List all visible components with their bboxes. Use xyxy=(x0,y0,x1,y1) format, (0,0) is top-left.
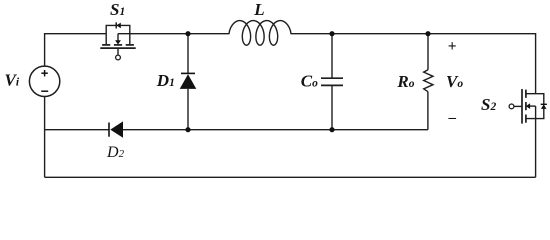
node junction dot D1 bottom xyxy=(185,127,190,132)
svg-text:Vi: Vi xyxy=(5,70,20,89)
wire Ro top lead xyxy=(427,34,429,70)
svg-text:S1: S1 xyxy=(110,0,125,19)
wire Co bottom lead xyxy=(331,86,333,130)
svg-text:+: + xyxy=(448,38,457,55)
node junction dot D1 top xyxy=(185,31,190,36)
node junction dot Co top xyxy=(329,31,334,36)
svg-text:Ro: Ro xyxy=(396,72,414,91)
inductor L xyxy=(229,21,291,46)
wire Ro bottom lead xyxy=(427,92,429,130)
wire middle rail left segment to D2 xyxy=(45,129,109,131)
wire top rail left from Vi to S1 source xyxy=(45,34,107,66)
wire top rail from S1 bulk corner to inductor xyxy=(118,33,230,35)
diode D1 xyxy=(180,73,197,89)
transistor S2 (MOSFET with body diode) xyxy=(509,89,547,124)
wire Vi bottom to bottom rail xyxy=(44,96,46,177)
node junction dot Co bottom xyxy=(329,127,334,132)
node junction dot Ro top xyxy=(425,31,430,36)
wire D1 bottom lead xyxy=(187,89,189,130)
svg-text:L: L xyxy=(253,0,264,19)
svg-text:Vo: Vo xyxy=(446,72,463,91)
voltage source Vi xyxy=(29,66,59,96)
capacitor Co xyxy=(321,78,343,85)
svg-text:D2: D2 xyxy=(106,144,125,161)
svg-text:S2: S2 xyxy=(481,95,496,114)
diode D2 xyxy=(109,121,123,137)
wire middle rail from D2 to Ro bottom corner xyxy=(123,129,428,131)
resistor Ro xyxy=(424,70,433,92)
wire top rail from inductor to right corner and down to S2 drain xyxy=(291,34,536,94)
svg-text:–: – xyxy=(448,110,457,126)
svg-text:Co: Co xyxy=(301,72,318,91)
transistor S1 (MOSFET with body diode) xyxy=(100,22,135,60)
wire S2 source down to bottom rail xyxy=(535,106,537,177)
wire D1 top lead xyxy=(187,34,189,74)
wire Co top lead xyxy=(331,34,333,78)
wire bottom rail xyxy=(45,176,536,178)
svg-text:D1: D1 xyxy=(156,71,175,90)
